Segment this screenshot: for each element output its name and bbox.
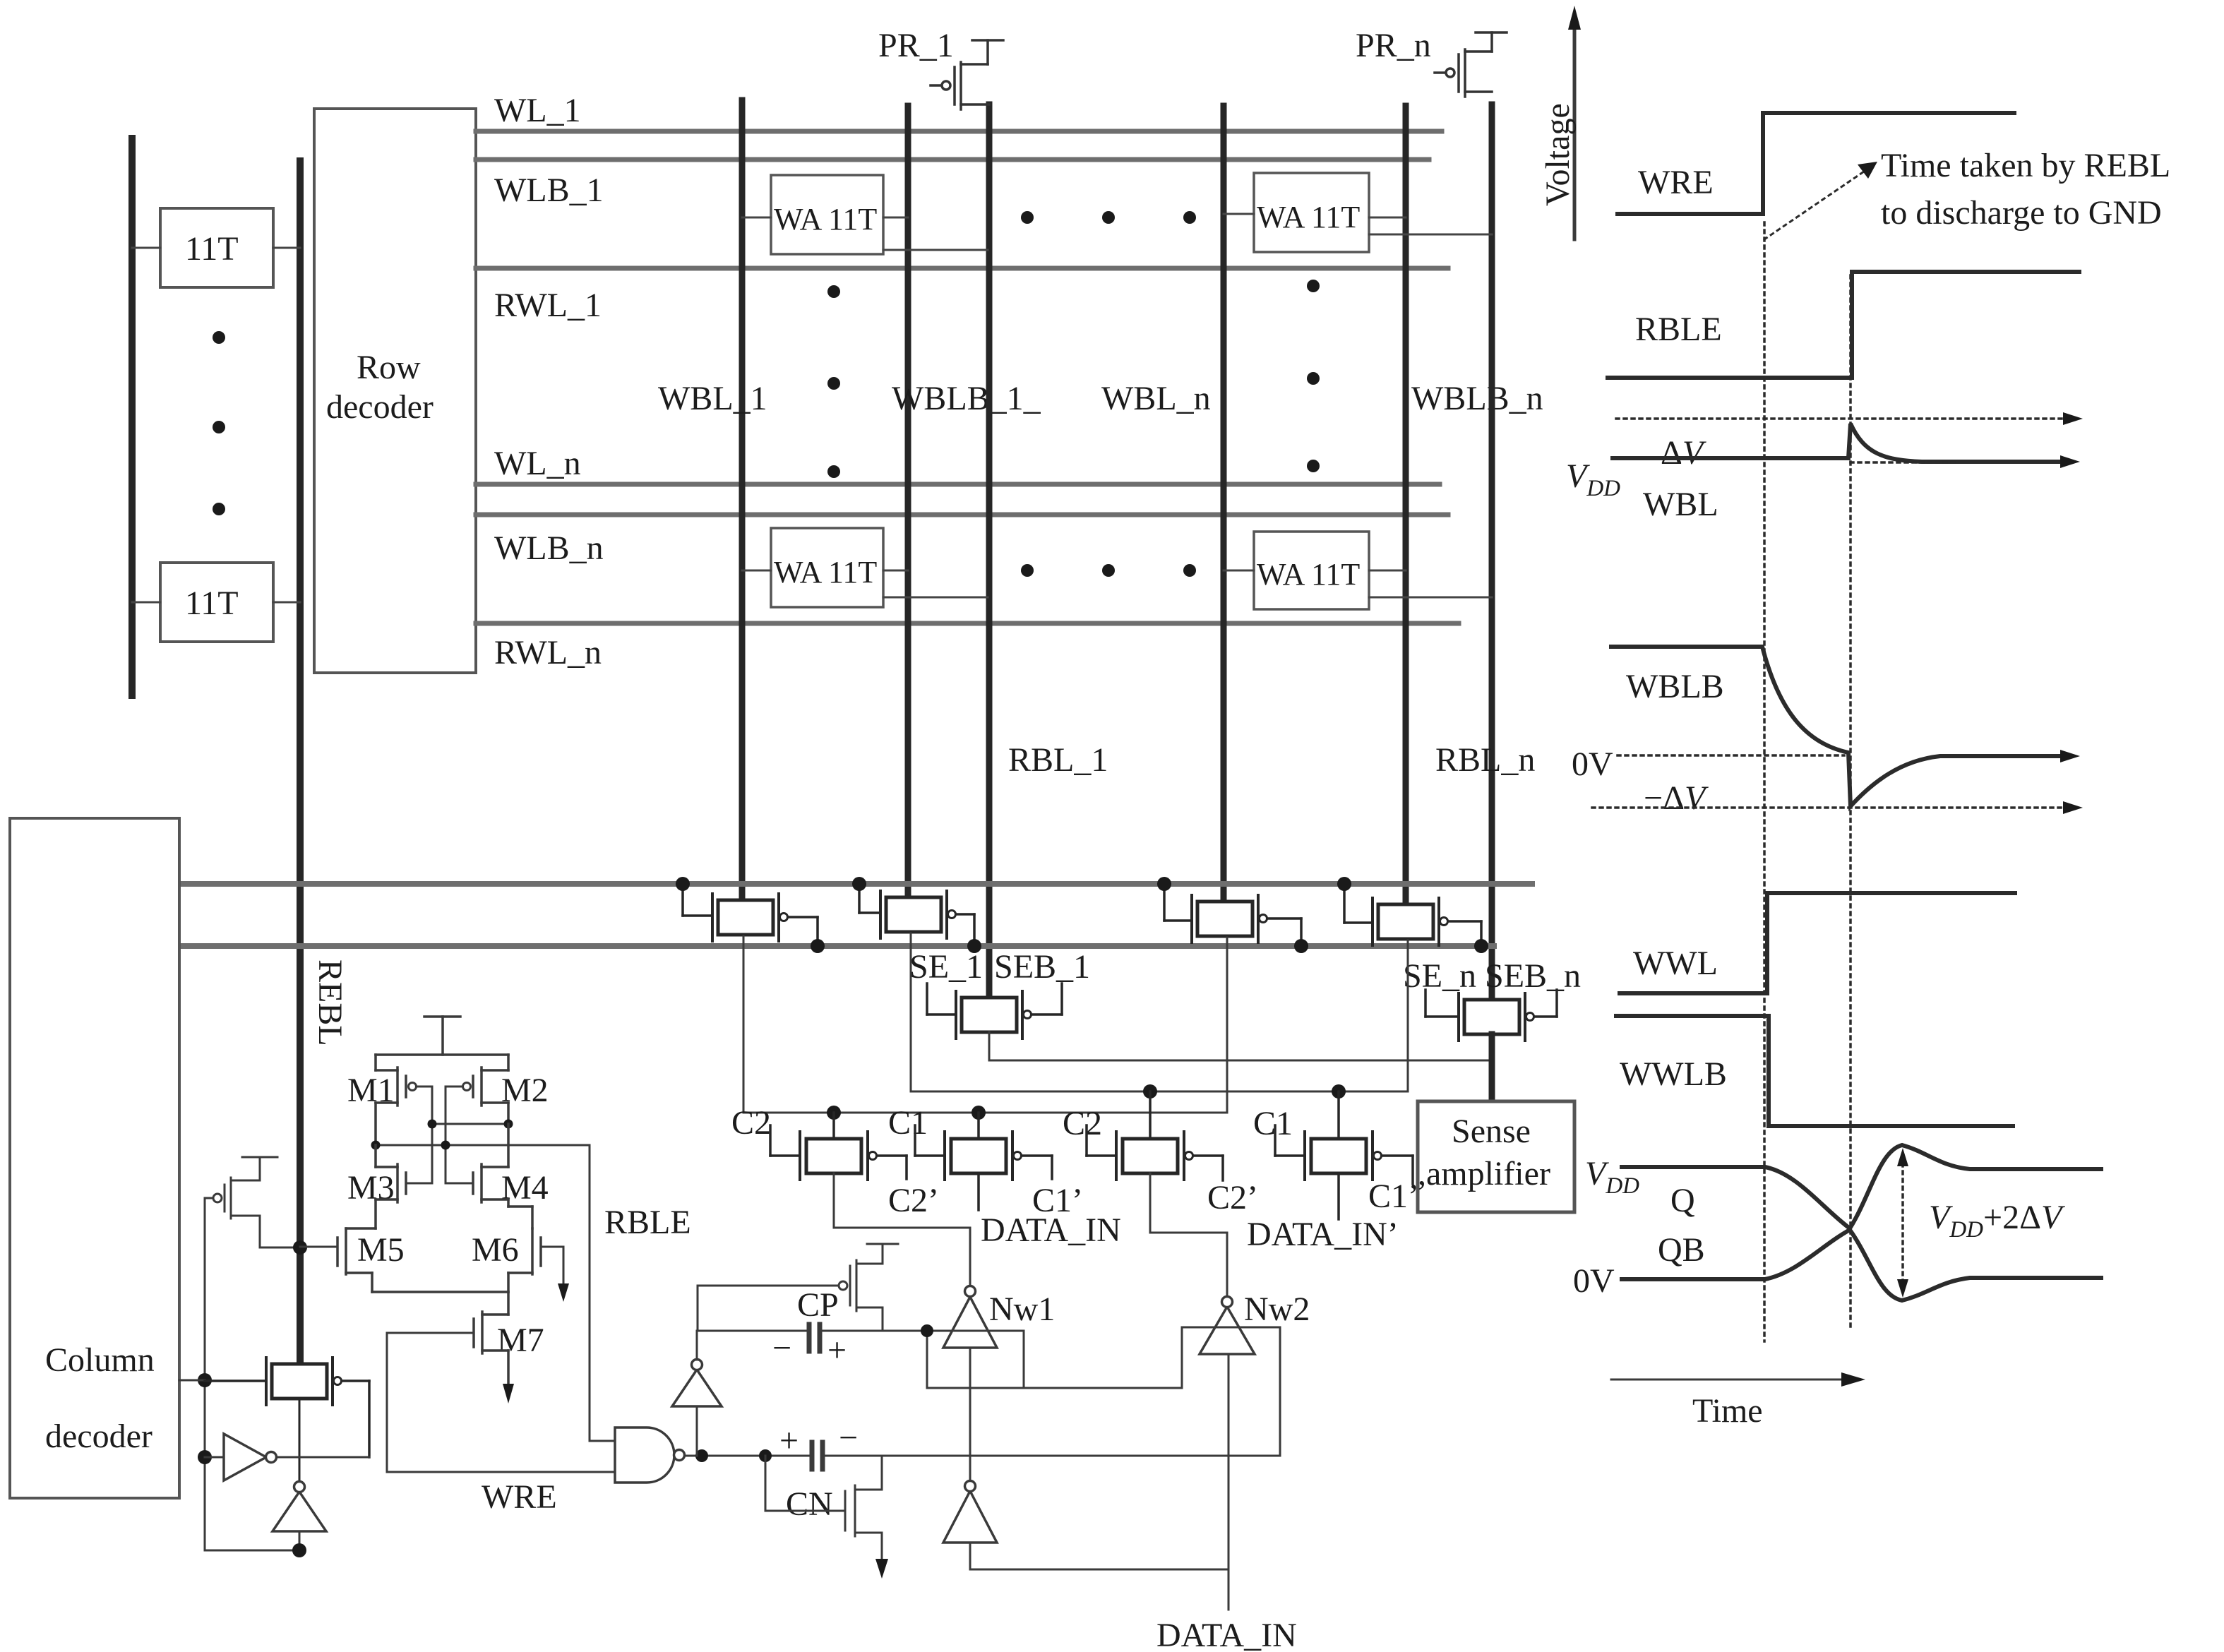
inverter keeper right-pointing — [205, 1434, 369, 1480]
svg-text:M7: M7 — [497, 1322, 544, 1359]
svg-text:WBLB_n: WBLB_n — [1411, 380, 1543, 417]
dots: row1 horizontal ellipsis — [1021, 211, 1196, 224]
svg-text:VDD: VDD — [1566, 457, 1620, 501]
transistor T4 gate C1 second pair — [1247, 1091, 1419, 1253]
svg-text:−: − — [839, 1419, 858, 1456]
dotted timeline 1 — [1763, 222, 1766, 1341]
svg-text:RWL_n: RWL_n — [494, 634, 602, 671]
svg-text:SE_1: SE_1 — [909, 948, 983, 986]
transistor M2 PMOS — [446, 1055, 549, 1124]
svg-text:C2’: C2’ — [888, 1182, 939, 1219]
svg-text:WL_1: WL_1 — [494, 92, 581, 129]
svg-text:to discharge to GND: to discharge to GND — [1881, 194, 2162, 232]
wire cross couple node a — [428, 1087, 513, 1183]
svg-text:SE_n: SE_n — [1403, 957, 1476, 995]
svg-text:PR_n: PR_n — [1356, 27, 1431, 64]
svg-text:WBL_n: WBL_n — [1101, 380, 1211, 417]
svg-text:RWL_1: RWL_1 — [494, 287, 602, 324]
waveform Q — [1585, 1145, 2101, 1228]
inverter NAND to CP upward — [672, 1286, 722, 1456]
axis Voltage — [1539, 6, 1581, 239]
pass gate on REBL bottom — [205, 1358, 369, 1481]
wire SE_1 output to sense amp — [989, 1032, 1492, 1060]
node REBL label — [311, 959, 349, 1046]
waveform WWLB — [1616, 1016, 2013, 1126]
pass gate G4 on WBLB_n — [1337, 877, 1488, 953]
WA 11T cell row2 col1 — [742, 528, 988, 607]
inverter Nw1 — [943, 1286, 1055, 1348]
node SE_n SEB_n labels — [1403, 957, 1581, 995]
ground arrow at M6 gate — [558, 1283, 569, 1302]
wire WBLB write bus — [911, 933, 1408, 1099]
WA 11T cell row1 col1 — [742, 175, 988, 254]
svg-text:Time taken by REBL: Time taken by REBL — [1881, 147, 2170, 184]
svg-text:decoder: decoder — [326, 388, 434, 426]
wire RBL_1 read bitline — [989, 104, 1108, 999]
sense amplifier box — [1418, 1101, 1574, 1212]
capacitor CP — [697, 1286, 933, 1369]
svg-text:DATA_IN’: DATA_IN’ — [1247, 1216, 1399, 1253]
wire REBL vertical line — [297, 161, 304, 1365]
transistor SE_n column read switch — [1425, 990, 1557, 1041]
dots: 11T column ellipsis — [213, 331, 225, 515]
wire RWL_n wordline — [476, 623, 1459, 671]
svg-text:C2: C2 — [731, 1104, 771, 1142]
dots: row2 horizontal ellipsis — [1021, 564, 1196, 577]
gate NAND write pulse — [615, 1427, 708, 1483]
svg-text:+: + — [827, 1331, 847, 1369]
svg-text:Time: Time — [1692, 1392, 1763, 1430]
wire RBL_n read bitline — [1435, 104, 1535, 1001]
svg-text:M3: M3 — [347, 1169, 395, 1207]
waveform RBLE — [1608, 272, 2079, 378]
11T cell box top — [132, 208, 300, 287]
svg-text:decoder: decoder — [45, 1418, 153, 1455]
WA 11T cell row1 col2 — [1224, 173, 1492, 252]
svg-text:,amplifier: ,amplifier — [1418, 1155, 1550, 1192]
transistor T1 gate C2 — [731, 1104, 939, 1219]
waveform WBLB — [1611, 647, 2080, 806]
wire T1 output to Nw1 — [834, 1173, 970, 1286]
waveform QB — [1573, 1230, 2101, 1300]
svg-text:M5: M5 — [357, 1231, 405, 1269]
svg-text:Voltage: Voltage — [1539, 103, 1577, 206]
wire CP node feedback to Nw2 — [927, 1327, 1280, 1456]
svg-text:QB: QB — [1658, 1231, 1705, 1269]
wire WLB_n wordline — [476, 515, 1448, 567]
wire Nw1 crossing feedback — [927, 1331, 1024, 1388]
svg-text:RBLE: RBLE — [604, 1204, 691, 1241]
transistor T2 gate C1 — [888, 1104, 1121, 1249]
svg-text:WWL: WWL — [1633, 945, 1718, 982]
wire WRE to NAND — [387, 1333, 615, 1516]
wire WBL write bus — [743, 936, 1227, 1120]
svg-text:Column: Column — [45, 1341, 155, 1379]
wire T3 output to Nw2 — [1150, 1173, 1227, 1296]
svg-text:REBL: REBL — [311, 959, 349, 1046]
svg-text:DATA_IN: DATA_IN — [981, 1211, 1121, 1249]
svg-text:C1: C1 — [888, 1104, 928, 1142]
svg-text:M6: M6 — [472, 1231, 519, 1269]
pass gate G2 on WBLB_1 — [852, 877, 981, 953]
transistor M3 NMOS — [347, 1145, 432, 1228]
wire WL_1 wordline — [476, 92, 1442, 131]
svg-text:VDD+2ΔV: VDD+2ΔV — [1929, 1199, 2065, 1243]
axis Time — [1611, 1372, 1865, 1430]
dotted timeline 2 — [1849, 275, 1852, 1327]
svg-text:SEB_1: SEB_1 — [994, 948, 1090, 986]
svg-text:WA 11T: WA 11T — [1257, 200, 1360, 234]
pass gate G3 on WBL_n — [1157, 877, 1308, 953]
svg-text:C1: C1 — [1253, 1105, 1293, 1142]
waveform WWL — [1620, 893, 2015, 993]
transistor SE_1 column read switch — [927, 983, 1062, 1039]
svg-text:WLB_1: WLB_1 — [494, 172, 604, 209]
waveform WBL — [1566, 424, 2080, 523]
transistor PR_n precharge PMOS — [1356, 27, 1507, 97]
transistor PR_1 precharge PMOS — [878, 27, 1003, 109]
wire keeper gate feedback vertical — [179, 1198, 212, 1550]
wire RWL_1 wordline — [476, 268, 1448, 324]
11T cell box bottom — [132, 563, 300, 642]
svg-text:WRE: WRE — [1638, 164, 1714, 201]
transistor M1 PMOS — [347, 1055, 432, 1145]
wire WBLB_n bitline — [1406, 106, 1543, 906]
svg-text:CP: CP — [797, 1286, 839, 1324]
svg-text:WBLB_1_: WBLB_1_ — [892, 380, 1041, 417]
row decoder box — [314, 109, 476, 673]
WA 11T cell row2 col2 — [1224, 532, 1492, 609]
svg-text:11T: 11T — [185, 230, 239, 268]
svg-text:DATA_IN: DATA_IN — [1156, 1617, 1297, 1652]
column decoder box — [10, 818, 179, 1498]
wire WBL_1 bitline — [658, 100, 767, 902]
dotted level 0V — [1572, 746, 1844, 783]
transistor CN boost NMOS — [765, 1456, 882, 1559]
wire column select line 1 — [179, 881, 1532, 887]
svg-text:RBL_n: RBL_n — [1435, 741, 1535, 779]
svg-text:WLB_n: WLB_n — [494, 529, 604, 567]
transistor M6 NMOS — [472, 1207, 563, 1292]
inverter keeper upward — [205, 1482, 326, 1558]
annotation arrow time taken — [1764, 147, 2170, 239]
svg-text:WBL: WBL — [1643, 486, 1718, 523]
dotted level VDD plus dV — [1616, 412, 2083, 425]
svg-text:WA 11T: WA 11T — [774, 555, 877, 589]
svg-text:PR_1: PR_1 — [878, 27, 954, 64]
wire DATA_IN input — [970, 1354, 1297, 1652]
svg-text:−ΔV: −ΔV — [1644, 779, 1709, 817]
svg-text:Nw2: Nw2 — [1244, 1291, 1310, 1328]
svg-text:ΔV: ΔV — [1661, 434, 1706, 472]
svg-text:WL_n: WL_n — [494, 445, 581, 482]
dotted level minus dV — [1592, 779, 2083, 817]
svg-text:C2’: C2’ — [1207, 1179, 1258, 1216]
wire RBLE to NAND — [590, 1145, 691, 1441]
wire WBLB_1 bitline — [892, 106, 1041, 899]
svg-text:WA 11T: WA 11T — [774, 202, 877, 237]
svg-text:−: − — [772, 1329, 791, 1367]
svg-text:Row: Row — [357, 349, 421, 386]
svg-text:+: + — [779, 1422, 799, 1459]
svg-text:Nw1: Nw1 — [989, 1291, 1055, 1328]
dots: col2 vertical ellipsis — [1307, 280, 1320, 472]
svg-text:WBLB: WBLB — [1626, 668, 1724, 705]
transistor CP boost PMOS — [698, 1244, 898, 1331]
wire column select line 2 — [179, 943, 1494, 949]
svg-text:RBLE: RBLE — [1635, 311, 1722, 348]
wire: left shared line of 11T column — [128, 138, 136, 695]
svg-text:0V: 0V — [1573, 1262, 1615, 1300]
svg-text:VDD: VDD — [1585, 1155, 1639, 1199]
pass gate G1 on WBL_1 — [676, 877, 825, 953]
ground arrow below CN — [875, 1559, 888, 1579]
transistor M7 NMOS — [387, 1292, 544, 1384]
transistor M5 NMOS — [300, 1228, 508, 1292]
annotation VDD plus 2dV — [1897, 1148, 2065, 1298]
wire WL_n wordline — [476, 445, 1440, 484]
wire cross couple node b RBLE — [371, 1087, 590, 1183]
capacitor CN — [702, 1419, 1280, 1523]
svg-text:SEB_n: SEB_n — [1485, 957, 1581, 995]
svg-text:RBL_1: RBL_1 — [1008, 741, 1108, 779]
svg-text:Q: Q — [1670, 1182, 1695, 1219]
svg-text:C1’: C1’ — [1368, 1178, 1419, 1215]
dots: col1 vertical ellipsis — [827, 285, 840, 478]
waveform WRE — [1618, 113, 2014, 214]
wire WLB_1 wordline — [476, 160, 1429, 209]
svg-text:WRE: WRE — [482, 1478, 557, 1516]
inverter Nw2 — [1200, 1291, 1310, 1354]
ground arrow below M7 — [503, 1384, 514, 1403]
inverter INV2 below Nw1 — [943, 1348, 997, 1543]
svg-text:CN: CN — [786, 1485, 833, 1523]
svg-text:Sense: Sense — [1452, 1113, 1531, 1150]
svg-text:WBL_1: WBL_1 — [658, 380, 767, 417]
svg-text:WA 11T: WA 11T — [1257, 557, 1360, 592]
svg-text:0V: 0V — [1572, 746, 1613, 783]
node SE_1 SEB_1 labels — [909, 948, 1090, 986]
svg-text:11T: 11T — [185, 585, 239, 622]
transistor M4 NMOS — [446, 1124, 549, 1207]
wire RBL_n into sense amp — [1489, 1034, 1495, 1101]
transistor T3 gate C2 second pair — [1063, 1091, 1258, 1216]
transistor REBL pullup PMOS — [205, 1157, 307, 1255]
svg-text:C2: C2 — [1063, 1105, 1102, 1142]
power VDD bar above M1 M2 — [376, 1017, 508, 1055]
svg-text:WWLB: WWLB — [1620, 1055, 1727, 1093]
wire WBL_n bitline — [1101, 106, 1224, 903]
